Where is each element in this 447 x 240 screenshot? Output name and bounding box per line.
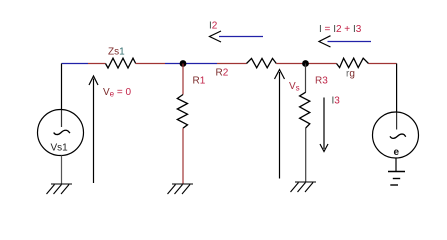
wire [396, 64, 398, 113]
ground [168, 184, 194, 194]
svg-text:R2: R2 [216, 68, 229, 79]
svg-text:R3: R3 [315, 76, 328, 87]
earth ground [388, 172, 405, 186]
wire [61, 64, 63, 111]
arrow I [319, 36, 371, 47]
wire [276, 63, 336, 65]
wire [165, 63, 217, 65]
svg-text:e: e [394, 147, 400, 158]
svg-text:Vs1: Vs1 [51, 143, 69, 154]
wire [395, 158, 397, 171]
node junction 2 [302, 60, 309, 67]
wire [136, 63, 165, 65]
svg-text:R1: R1 [193, 76, 206, 87]
wire [305, 128, 307, 182]
svg-text:Ve = 0: Ve = 0 [103, 87, 132, 99]
wire [305, 64, 307, 93]
wire [61, 110, 63, 127]
svg-text:Vs: Vs [289, 81, 300, 93]
svg-text:rg: rg [346, 69, 355, 80]
arrow I2 [210, 31, 264, 42]
voltage source e [373, 112, 419, 158]
arrow Ve [89, 76, 98, 183]
resistor rg [337, 58, 369, 67]
node junction 1 [180, 60, 187, 67]
svg-text:I2: I2 [209, 21, 218, 32]
voltage source Vs1 [38, 110, 84, 156]
wire [62, 63, 89, 65]
wire [182, 64, 184, 95]
svg-text:I = I2 + I3: I = I2 + I3 [319, 24, 362, 35]
ground [47, 184, 73, 194]
arrow Vs [275, 70, 285, 179]
wire [61, 156, 63, 185]
resistor Zs1 [106, 58, 136, 68]
wire [217, 63, 247, 65]
arrow I3 [320, 98, 328, 152]
ground [291, 182, 317, 192]
resistor R2 [247, 58, 277, 67]
wire [369, 63, 397, 65]
resistor R1 [177, 95, 187, 129]
wire [182, 128, 184, 184]
wire [396, 112, 398, 130]
resistor R3 [300, 92, 310, 128]
wire [88, 63, 106, 65]
svg-text:Zs1: Zs1 [108, 47, 125, 58]
svg-text:I3: I3 [332, 96, 341, 107]
